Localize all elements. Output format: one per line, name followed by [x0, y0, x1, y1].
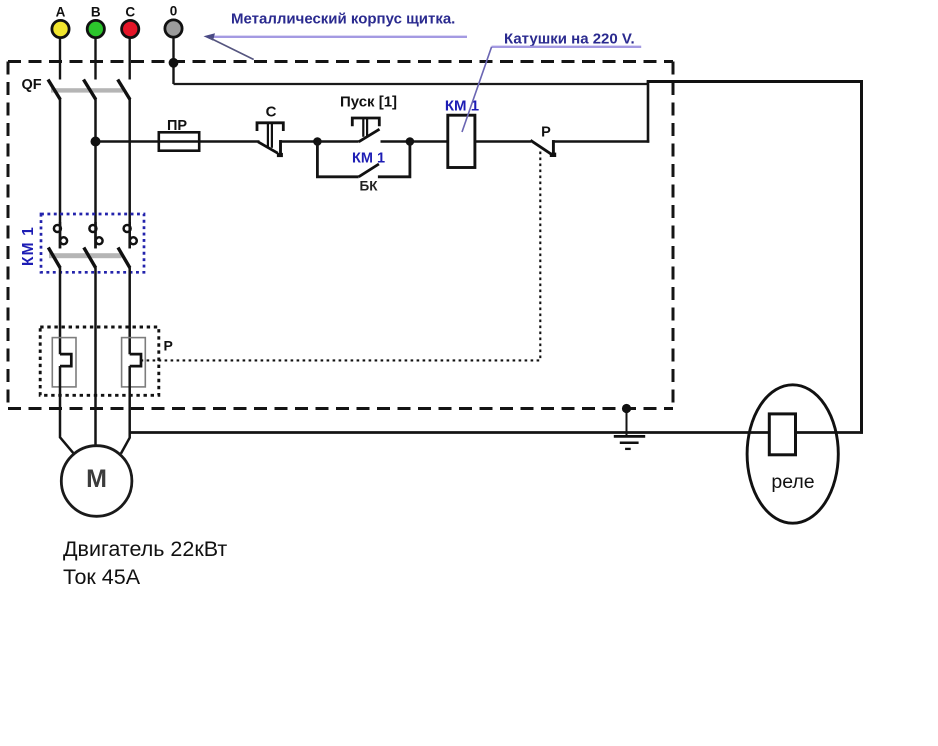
node 2 [406, 137, 415, 146]
svg-text:КМ 1: КМ 1 [20, 226, 37, 266]
svg-text:Р: Р [541, 125, 551, 141]
terminal A (yellow lamp) [52, 5, 69, 80]
heater element A case [52, 338, 76, 387]
breaker QF pole A [48, 80, 60, 100]
motor M [61, 446, 132, 517]
heater element C case [122, 338, 146, 387]
svg-text:КМ 1: КМ 1 [445, 98, 479, 115]
svg-text:В: В [91, 5, 101, 20]
svg-text:С: С [266, 104, 277, 121]
thermal relay P dotted box [40, 327, 159, 395]
wire: node2 to coil [410, 140, 448, 142]
svg-text:Пуск [1]: Пуск [1] [340, 94, 397, 111]
relay coil [769, 414, 795, 455]
svg-text:М: М [86, 465, 107, 493]
thermal relay NC contact P [531, 140, 552, 154]
contactor KM1 dotted box [41, 214, 144, 272]
heater element A [60, 354, 71, 366]
pushbutton Pusk NO contact [317, 140, 358, 142]
svg-text:А: А [56, 5, 66, 20]
wire: contact P to return riser [553, 140, 649, 142]
wire: control feed [96, 140, 260, 142]
wire: neutral bus right [647, 80, 863, 83]
svg-text:Металлический корпус щитка.: Металлический корпус щитка. [231, 11, 455, 28]
pushbutton C (stop) NC contact [258, 142, 278, 153]
wire: coil to relay contact [475, 140, 531, 142]
node: control tap on phase B [91, 137, 101, 147]
contactor coil KM1 [448, 115, 475, 167]
enclosure dashed box (metal panel body) [8, 62, 673, 409]
svg-text:БК: БК [360, 179, 379, 194]
wire: phase A mid [59, 268, 62, 355]
wire: C to node 1 [281, 140, 318, 142]
svg-text:QF: QF [22, 77, 42, 93]
terminal B (green lamp) [87, 5, 104, 80]
breaker QF pole C [118, 80, 130, 100]
wire: bottom run [130, 431, 770, 434]
svg-text:Катушки на 220 V.: Катушки на 220 V. [504, 31, 635, 48]
main contact pole A [48, 222, 67, 268]
wire: right outer drop [860, 82, 863, 434]
ground node on enclosure [622, 404, 631, 413]
breaker QF link bar [51, 88, 123, 92]
svg-text:Двигатель 22кВт: Двигатель 22кВт [63, 537, 227, 561]
wire: phase B drop [94, 99, 97, 248]
main contact pole C [118, 222, 137, 268]
node 1 [313, 137, 322, 146]
aux contact branch wires [317, 142, 358, 177]
wire: phase C drop [128, 99, 131, 248]
svg-text:Ток 45А: Ток 45А [63, 565, 141, 589]
fuse PR [159, 132, 199, 150]
terminal 0 (neutral, grey lamp) [165, 4, 182, 85]
breaker QF pole B [84, 80, 96, 100]
svg-text:реле: реле [771, 471, 814, 493]
terminal C (red lamp) [122, 5, 139, 80]
wire: neutral bus left [174, 83, 649, 85]
wire: phase A lower + bend to motor [60, 366, 73, 453]
ground lead [626, 409, 628, 437]
relay ellipse [747, 385, 838, 523]
pushbutton Pusk actuator [352, 118, 379, 126]
svg-text:Р: Р [164, 338, 173, 354]
aux contact blade [359, 164, 379, 177]
pushbutton C (stop) actuator [257, 123, 283, 131]
wire: phase C mid [128, 268, 131, 355]
dotted link P (trip linkage) [141, 152, 540, 361]
wire: phase A drop [59, 99, 62, 248]
ground symbol [614, 436, 645, 449]
svg-text:0: 0 [170, 4, 178, 19]
svg-text:С: С [125, 5, 135, 20]
heater element C [130, 354, 141, 366]
wire: control return riser [647, 81, 650, 143]
node: 0 junction on enclosure [169, 58, 179, 68]
contactor KM1 link bar [49, 253, 122, 258]
wire: phase C lower + bend to motor [121, 366, 130, 454]
main contact pole B [84, 222, 103, 268]
svg-text:КМ 1: КМ 1 [352, 151, 385, 167]
wire: phase B mid [94, 268, 97, 447]
